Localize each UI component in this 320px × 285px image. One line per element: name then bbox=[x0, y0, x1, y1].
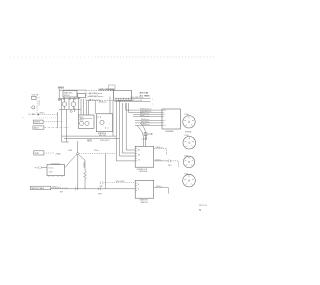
svg-text:(ORN) oo: (ORN) oo bbox=[155, 147, 162, 149]
fuse F1 bbox=[144, 133, 147, 135]
wire riser with elbow bbox=[116, 101, 135, 161]
lamp diamond bbox=[70, 110, 73, 113]
svg-text:SWITCH: SWITCH bbox=[141, 202, 149, 204]
wire with inline connector bbox=[154, 160, 169, 162]
label box taillight bbox=[33, 126, 44, 129]
wire riser with elbow bbox=[126, 103, 135, 150]
wire bbox=[51, 187, 69, 189]
wire from ignition to stub bbox=[154, 188, 169, 194]
wire from interlock to stub bbox=[154, 149, 167, 156]
svg-text:A HOT AT: A HOT AT bbox=[140, 91, 150, 94]
svg-text:LIGHTS: LIGHTS bbox=[34, 122, 41, 124]
svg-text:WHT: WHT bbox=[98, 194, 102, 196]
svg-text:(BLK) o-: (BLK) o- bbox=[155, 159, 162, 161]
inline connector bbox=[98, 187, 101, 190]
pin ticks bbox=[162, 110, 164, 125]
wire riser bbox=[109, 97, 111, 114]
svg-text:-□+ BAT: -□+ BAT bbox=[28, 113, 36, 116]
wire elbow bbox=[128, 103, 133, 112]
svg-text:ENGINE: ENGINE bbox=[166, 131, 175, 133]
test box bbox=[34, 151, 44, 155]
bus lower bbox=[59, 108, 81, 110]
svg-text:S o B+: S o B+ bbox=[49, 168, 54, 170]
engine wire row 2 bbox=[133, 111, 162, 113]
round connector C4 bbox=[183, 174, 196, 187]
wire riser bbox=[61, 99, 63, 142]
svg-text:↓: ↓ bbox=[152, 102, 153, 105]
svg-text:→: → bbox=[92, 117, 94, 119]
wire riser bbox=[88, 101, 90, 116]
small connector box bbox=[109, 85, 116, 89]
engine block E1 bbox=[162, 109, 181, 129]
wire elbow curve bbox=[140, 123, 146, 140]
svg-text:MAIN HARNESS: MAIN HARNESS bbox=[99, 88, 115, 91]
engine wire row 1 bbox=[133, 109, 162, 111]
wire bbox=[44, 121, 62, 123]
svg-text:→MAG: →MAG bbox=[55, 153, 62, 156]
wire branch to solenoid bbox=[65, 154, 77, 167]
wire bbox=[62, 141, 69, 143]
svg-text:(WHT)-o---o-: (WHT)-o---o- bbox=[140, 115, 150, 117]
svg-text:(RED) o--o: (RED) o--o bbox=[52, 187, 60, 189]
wire bbox=[59, 89, 86, 91]
wire elbow bbox=[126, 103, 133, 110]
wire branch down bbox=[77, 155, 79, 189]
svg-text:B2: B2 bbox=[138, 155, 140, 157]
ignition switch box bbox=[135, 180, 154, 198]
resistor R1 squiggle bbox=[84, 160, 87, 189]
coil symbol bbox=[85, 121, 89, 125]
wire riser with elbow bbox=[122, 103, 135, 153]
svg-text:-(BLK)-o-o-: -(BLK)-o-o- bbox=[99, 102, 107, 104]
svg-text:WHT: WHT bbox=[100, 186, 104, 188]
svg-text:o-(RED-WHT)-o-o-o: o-(RED-WHT)-o-o-o bbox=[88, 96, 103, 98]
wire bbox=[38, 100, 40, 106]
junction bbox=[38, 114, 40, 116]
pin ticks J3 bbox=[116, 98, 129, 101]
wire riser bbox=[83, 99, 85, 115]
wire row upper 1 bbox=[115, 98, 151, 100]
dashed branch right bbox=[79, 152, 117, 154]
inline connector bbox=[100, 181, 103, 184]
engine wire row 4 bbox=[133, 116, 162, 118]
wire bbox=[37, 117, 58, 119]
label box headlights bbox=[33, 120, 43, 123]
svg-text:(GRN)-o-o-: (GRN)-o-o- bbox=[141, 124, 150, 126]
fold line bbox=[10, 56, 95, 58]
wire bbox=[39, 114, 58, 116]
svg-text:↓: ↓ bbox=[152, 98, 153, 101]
engine wire row 6 bbox=[135, 122, 162, 124]
ammeter A1 bbox=[32, 106, 35, 109]
wire riser bbox=[57, 112, 59, 128]
inline connector bbox=[75, 187, 78, 190]
wire riser bbox=[73, 107, 75, 112]
dotted wire to ignition bbox=[105, 182, 136, 184]
wire riser bbox=[86, 101, 88, 116]
wire elbow curve bbox=[137, 125, 144, 146]
bus bbox=[62, 135, 117, 137]
svg-text:→: → bbox=[92, 122, 94, 124]
starter solenoid K1 bbox=[47, 165, 65, 176]
coil symbol bbox=[80, 121, 84, 125]
engine wire row 5 bbox=[135, 119, 162, 121]
junction node bbox=[77, 153, 79, 155]
svg-text:+: + bbox=[30, 107, 31, 109]
wire bbox=[111, 89, 114, 91]
harness box bbox=[86, 91, 114, 101]
lamp L2 bbox=[71, 102, 76, 107]
inline connector bbox=[39, 166, 42, 169]
svg-text:A1: A1 bbox=[138, 149, 140, 152]
svg-text:(BLK-RED) -o o-: (BLK-RED) -o o- bbox=[131, 97, 145, 99]
wire bbox=[145, 135, 147, 146]
engine wire row 3 bbox=[133, 113, 162, 115]
node dot bbox=[22, 116, 25, 119]
wire riser bbox=[104, 153, 106, 188]
svg-text:BATTERY CABLE: BATTERY CABLE bbox=[31, 187, 44, 190]
wire riser bbox=[65, 109, 67, 142]
wire bbox=[118, 100, 132, 102]
connector block J3 bbox=[114, 91, 132, 101]
safety interlock box bbox=[135, 146, 154, 167]
wire bbox=[58, 89, 60, 101]
svg-text:(BLK-WHT): (BLK-WHT) bbox=[116, 181, 125, 183]
wire row upper 2 bbox=[115, 101, 151, 103]
wire riser bbox=[77, 97, 79, 115]
wire riser bbox=[80, 99, 82, 115]
svg-text:C3: C3 bbox=[138, 160, 140, 162]
svg-text:(RED) o: (RED) o bbox=[156, 186, 162, 188]
svg-text:+: + bbox=[36, 107, 37, 109]
svg-text:SW B+: SW B+ bbox=[64, 95, 71, 97]
bottom bus bbox=[51, 188, 136, 190]
round connector C1 bbox=[183, 116, 195, 128]
engine wire row 7 bbox=[135, 124, 162, 126]
svg-text:o 12V+: o 12V+ bbox=[141, 139, 147, 141]
round connector C2 bbox=[183, 136, 196, 149]
starter motor M2 bbox=[96, 114, 112, 132]
svg-text:o M o: o M o bbox=[49, 172, 53, 174]
svg-text:MTD: MTD bbox=[87, 141, 92, 143]
svg-text:o-(BLK-RED)-o-o-o: o-(BLK-RED)-o-o-o bbox=[88, 93, 103, 95]
wire riser with elbow bbox=[119, 101, 135, 157]
svg-text:↓: ↓ bbox=[109, 123, 110, 126]
svg-text:(RED-WHT): (RED-WHT) bbox=[100, 140, 110, 142]
junction bbox=[69, 98, 70, 99]
lamp L1 bbox=[62, 102, 67, 107]
round connector C3 bbox=[183, 156, 194, 167]
connector block J2 bbox=[78, 94, 86, 98]
svg-text:TVS o-: TVS o- bbox=[94, 150, 100, 152]
wire riser bbox=[112, 100, 114, 136]
key switch S1 bbox=[63, 91, 77, 98]
bus bbox=[58, 98, 80, 100]
svg-text:MAIN: MAIN bbox=[58, 86, 64, 90]
svg-text:(RED) -o o- B+: (RED) -o o- B+ bbox=[131, 100, 143, 102]
voltmeter V1 bbox=[32, 96, 37, 99]
svg-text:E: E bbox=[165, 120, 166, 122]
svg-text:VIEW A: VIEW A bbox=[185, 131, 192, 134]
wire bbox=[45, 152, 55, 154]
solenoid lead bbox=[35, 167, 38, 168]
bus bbox=[64, 138, 119, 140]
wire bbox=[77, 141, 79, 153]
junction bbox=[63, 98, 64, 99]
svg-text:MODULE: MODULE bbox=[140, 171, 148, 173]
wire bbox=[36, 99, 38, 115]
junction bbox=[74, 98, 75, 99]
ignition module M1 bbox=[78, 115, 94, 128]
wire bbox=[44, 127, 69, 129]
wire riser bbox=[68, 99, 70, 110]
battery cable label box bbox=[31, 186, 51, 190]
svg-text:(RED): (RED) bbox=[40, 113, 45, 115]
wire riser bbox=[94, 100, 96, 114]
ticks inside starter bbox=[98, 116, 108, 129]
